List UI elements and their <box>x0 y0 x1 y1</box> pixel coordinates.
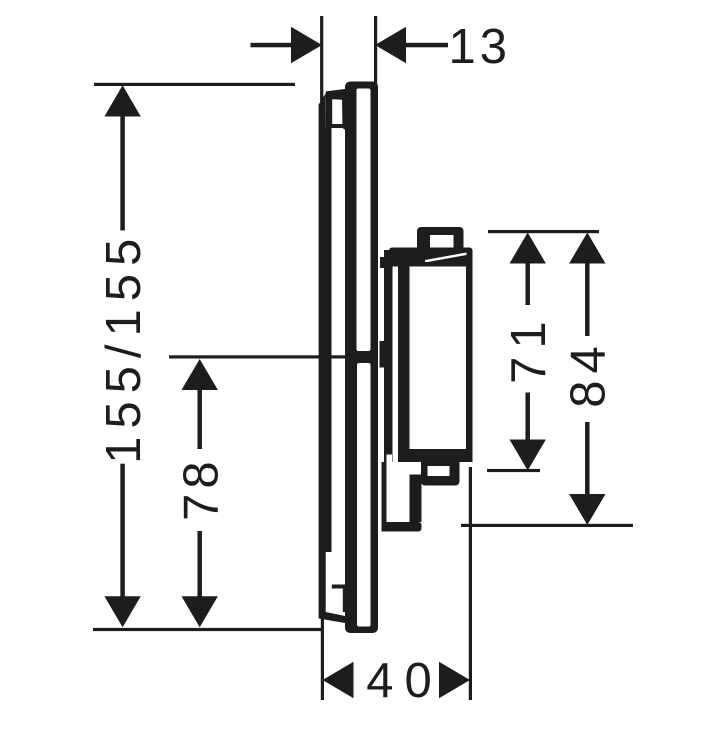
dim 71 bottom extension line <box>487 469 540 472</box>
carrier plate inner thickening <box>324 127 332 552</box>
dim 155/155 shaft upper <box>120 108 125 230</box>
carrier front face bottom segment <box>343 585 348 612</box>
carrier front face top segment <box>342 99 348 132</box>
dim 78 shaft lower <box>197 531 202 598</box>
dim 13 arrow left-pointing <box>375 27 406 63</box>
dim 78 arrow up <box>182 359 218 390</box>
valve cartridge body <box>398 262 473 462</box>
white gap between wall and cartridge <box>393 267 399 447</box>
front plate upper half <box>345 82 378 358</box>
dim 84 arrow down <box>569 494 605 525</box>
dim 71 shaft lower <box>525 393 530 441</box>
dim 155/155+78 bottom extension line <box>93 628 323 631</box>
valve left bump <box>380 341 386 368</box>
dim 155/155 arrow up <box>104 85 140 116</box>
carrier plate lower closer line <box>332 585 347 589</box>
dim 84 shaft upper <box>585 256 590 336</box>
carrier plate bottom edge <box>319 611 345 624</box>
dim 40 left extension line <box>321 612 324 700</box>
valve top flange <box>389 248 473 267</box>
valve bottom tab <box>421 457 460 486</box>
svg-text:78: 78 <box>175 456 229 521</box>
dim 84 bottom extension line <box>461 524 633 527</box>
svg-text:84: 84 <box>562 339 616 408</box>
valve lower bottom bar <box>382 522 422 532</box>
dim 71 arrow up <box>510 233 546 264</box>
valve lower-left wall <box>382 462 387 532</box>
dim 40 right extension line <box>469 467 472 700</box>
dim 13 tail left <box>251 43 292 48</box>
svg-text:40: 40 <box>366 654 443 708</box>
front plate lower half <box>345 357 378 634</box>
carrier plate left bar <box>319 91 327 614</box>
dim 84 arrow up <box>569 233 605 264</box>
dim 71 shaft upper <box>525 256 530 305</box>
dim 13 extension line right <box>374 16 377 84</box>
carrier plate top band <box>326 89 347 124</box>
dim 78 shaft upper <box>197 383 202 449</box>
front plate mid band <box>345 351 378 363</box>
carrier plate upper closer line <box>326 124 344 128</box>
valve under-flange block <box>384 250 410 268</box>
valve outer left wall <box>384 252 393 462</box>
valve cap tab <box>417 227 464 252</box>
svg-text:155/155: 155/155 <box>97 231 151 464</box>
dim 13 arrow right-pointing <box>291 27 322 63</box>
dim 155/155 top extension line <box>94 83 295 86</box>
valve lower-right wall <box>410 475 422 523</box>
dim 71/84 top extension line <box>488 230 599 233</box>
dim 40 arrow right-pointing <box>439 662 470 698</box>
valve lower-left white notch <box>387 455 393 465</box>
dim 78 top extension line <box>169 355 347 358</box>
dim 40 arrow left-pointing <box>323 662 354 698</box>
dim 155/155 arrow down <box>104 596 140 627</box>
svg-text:13: 13 <box>449 20 512 74</box>
dim 13 tail right <box>406 43 448 48</box>
dim 84 shaft lower <box>585 422 590 495</box>
dim 71 arrow down <box>510 440 546 471</box>
dim 155/155 shaft lower <box>120 464 125 598</box>
svg-text:71: 71 <box>502 313 556 384</box>
dim 13 extension line left <box>320 16 323 104</box>
dim 78 arrow down <box>182 596 218 627</box>
